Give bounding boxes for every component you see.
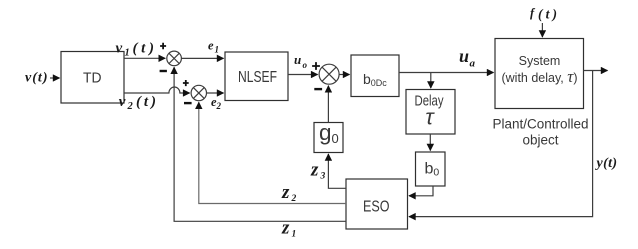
svg-text:u: u xyxy=(459,46,469,66)
svg-text:2: 2 xyxy=(127,101,134,112)
svg-text:object: object xyxy=(522,133,558,148)
svg-text:1: 1 xyxy=(215,45,220,55)
svg-text:v(t): v(t) xyxy=(25,71,48,86)
svg-text:f: f xyxy=(530,6,536,20)
svg-text:NLSEF: NLSEF xyxy=(238,69,277,86)
svg-text:(t): (t) xyxy=(136,94,156,110)
svg-text:Plant/Controlled: Plant/Controlled xyxy=(492,117,588,132)
svg-text:1: 1 xyxy=(125,48,130,59)
svg-text:(t): (t) xyxy=(538,7,557,22)
svg-text:3: 3 xyxy=(320,172,326,182)
svg-text:(t): (t) xyxy=(133,41,155,57)
svg-text:z: z xyxy=(310,160,319,181)
svg-text:e: e xyxy=(208,39,214,53)
svg-text:u: u xyxy=(294,52,301,67)
svg-text:o: o xyxy=(303,60,308,70)
svg-text:System: System xyxy=(519,54,561,68)
svg-text:z: z xyxy=(281,218,290,239)
svg-text:TD: TD xyxy=(83,70,102,87)
svg-text:2: 2 xyxy=(216,101,222,111)
svg-text:1: 1 xyxy=(292,230,297,240)
svg-text:z: z xyxy=(281,182,290,203)
svg-text:a: a xyxy=(470,58,476,70)
svg-text:y(t): y(t) xyxy=(595,156,618,171)
svg-text:ESO: ESO xyxy=(363,199,390,216)
svg-text:v: v xyxy=(116,41,123,57)
svg-text:2: 2 xyxy=(291,194,297,204)
svg-text:v: v xyxy=(119,94,126,110)
